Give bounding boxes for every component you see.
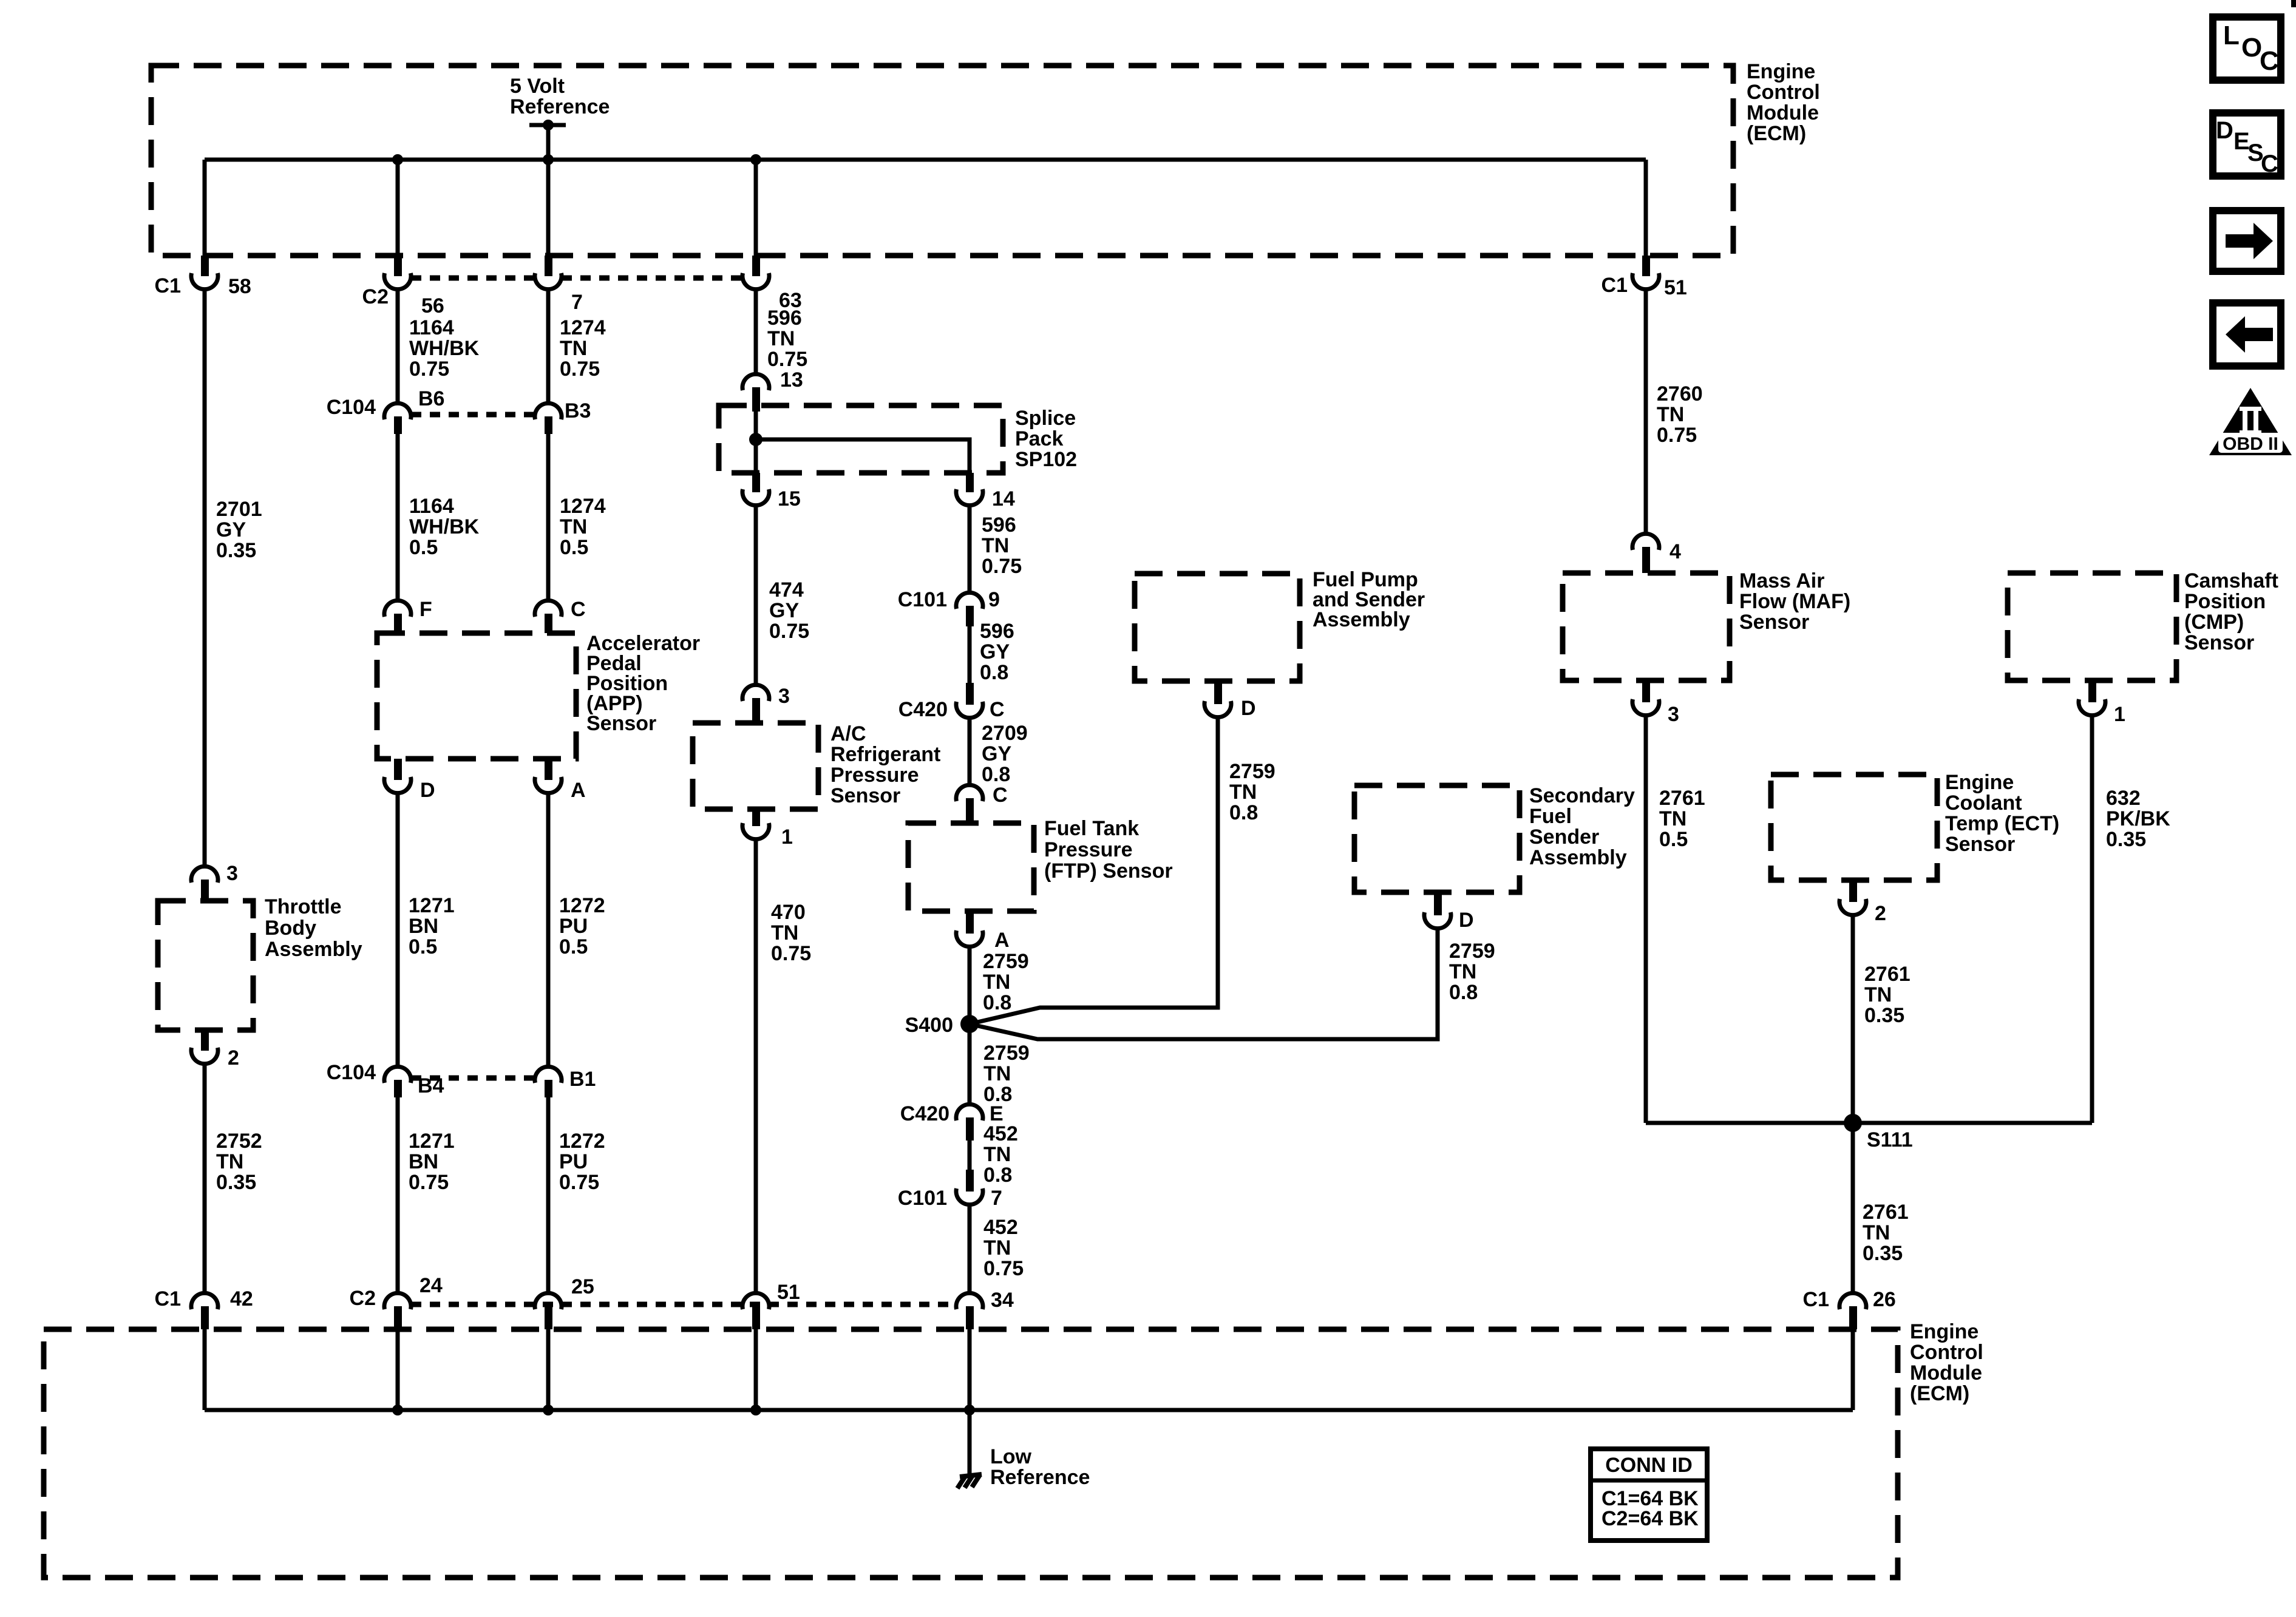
- 5 Volt Reference label: [510, 75, 610, 118]
- Low Reference label: [990, 1445, 1090, 1489]
- connector pin 7: [535, 256, 583, 314]
- svg-text:TN: TN: [560, 515, 587, 538]
- svg-text:470: 470: [771, 901, 806, 924]
- wire label 452 TN 0.75: [983, 1216, 1024, 1280]
- svg-text:1272: 1272: [559, 894, 605, 917]
- svg-text:B1: B1: [569, 1068, 596, 1091]
- connector CMP pin 1: [2079, 680, 2125, 726]
- svg-text:Engine: Engine: [1747, 60, 1815, 83]
- wire label 2759 TN 0.8 (pump): [1229, 760, 1275, 824]
- svg-text:TN: TN: [1657, 403, 1684, 426]
- svg-text:474: 474: [769, 578, 804, 602]
- svg-text:Camshaft: Camshaft: [2184, 569, 2278, 592]
- svg-text:L: L: [2223, 21, 2240, 50]
- wire 2760 C1-51 to MAF 4: [1644, 291, 1648, 532]
- svg-text:Low: Low: [990, 1445, 1032, 1468]
- node bus junction 63: [750, 154, 761, 165]
- svg-text:0.5: 0.5: [559, 935, 588, 958]
- svg-text:Reference: Reference: [510, 95, 610, 118]
- arrow right icon: [2213, 211, 2281, 271]
- Engine Coolant Temp Sensor dashed box: [1771, 775, 1937, 880]
- svg-text:WH/BK: WH/BK: [409, 515, 480, 538]
- svg-text:0.75: 0.75: [982, 555, 1022, 578]
- wire pin25 into box: [546, 1329, 551, 1410]
- svg-text:5 Volt: 5 Volt: [510, 75, 565, 98]
- wire label 2761 TN 0.5: [1659, 787, 1705, 851]
- svg-text:S400: S400: [905, 1014, 953, 1037]
- node bus2 junction C2-24: [392, 1405, 403, 1415]
- svg-text:42: 42: [230, 1287, 253, 1310]
- svg-text:0.75: 0.75: [409, 1171, 449, 1194]
- wire label 474 GY 0.75: [769, 578, 809, 643]
- svg-text:0.5: 0.5: [409, 536, 438, 559]
- svg-text:Refrigerant: Refrigerant: [830, 743, 940, 766]
- connector APP pin A: [535, 759, 586, 802]
- svg-text:0.5: 0.5: [1659, 828, 1688, 851]
- wire label 2761 TN 0.35 (b): [1863, 1201, 1909, 1265]
- 5 Volt Reference terminal symbol: [529, 120, 566, 131]
- svg-text:2701: 2701: [216, 498, 262, 521]
- dotted connector line C104 B6-B3: [411, 412, 535, 418]
- svg-text:C420: C420: [898, 698, 948, 721]
- connector C1-26 pin 26: [1803, 1288, 1896, 1329]
- svg-text:C: C: [990, 698, 1005, 721]
- svg-text:0.8: 0.8: [1229, 801, 1258, 824]
- connector C2-24 pin 24: [350, 1274, 443, 1329]
- svg-text:B6: B6: [418, 387, 444, 410]
- svg-text:4: 4: [1669, 540, 1681, 563]
- wire bus drop C2-56: [396, 160, 400, 256]
- svg-text:BN: BN: [409, 915, 438, 938]
- svg-text:3: 3: [778, 685, 790, 708]
- wire label 1164 WH/BK 0.75: [409, 316, 480, 381]
- svg-text:2761: 2761: [1659, 787, 1705, 810]
- node bus2 junction 25: [543, 1405, 554, 1415]
- svg-text:56: 56: [421, 294, 444, 317]
- wire label 596 TN 0.75: [767, 307, 807, 371]
- wire bus drop C1-51: [1644, 160, 1648, 256]
- svg-text:C104: C104: [327, 1061, 376, 1084]
- svg-text:596: 596: [982, 514, 1016, 537]
- svg-text:2759: 2759: [983, 950, 1029, 973]
- LOC icon: [2213, 17, 2281, 80]
- svg-text:Sensor: Sensor: [586, 712, 656, 735]
- svg-text:51: 51: [1664, 276, 1687, 299]
- svg-text:C1: C1: [155, 1287, 181, 1310]
- svg-text:Sensor: Sensor: [1945, 833, 2015, 856]
- dotted connector line C104 B4-B1: [411, 1076, 535, 1081]
- svg-text:2761: 2761: [1863, 1201, 1909, 1224]
- wire 2761 MAF 3 to S111: [1644, 717, 1648, 1123]
- svg-text:Reference: Reference: [990, 1466, 1090, 1489]
- svg-text:1274: 1274: [560, 495, 606, 518]
- svg-text:C101: C101: [898, 1187, 947, 1210]
- svg-text:C: C: [993, 784, 1008, 807]
- wire label 632 PK/BK 0.35: [2106, 787, 2170, 851]
- node bus junction C2: [392, 154, 403, 165]
- connector C104 pin B3: [535, 399, 591, 434]
- wire label 1274 TN 0.5: [560, 495, 606, 559]
- svg-text:C2=64 BK: C2=64 BK: [1601, 1507, 1699, 1530]
- svg-text:632: 632: [2106, 787, 2141, 810]
- svg-text:TN: TN: [216, 1150, 243, 1173]
- svg-text:2752: 2752: [216, 1130, 262, 1153]
- svg-text:PU: PU: [559, 1150, 588, 1173]
- svg-text:Position: Position: [2184, 590, 2266, 613]
- node splice S400: [905, 1014, 979, 1037]
- svg-text:Fuel: Fuel: [1529, 805, 1572, 828]
- node bus2 junction 51: [750, 1405, 761, 1415]
- svg-text:34: 34: [991, 1289, 1014, 1312]
- connector C420 pin C: [898, 683, 1005, 721]
- svg-text:TN: TN: [1864, 983, 1892, 1006]
- wire 5V reference bus: [205, 158, 1646, 162]
- connector FTP pin C: [956, 784, 1008, 823]
- svg-text:Sensor: Sensor: [2184, 631, 2254, 654]
- connector C101 pin 9: [898, 588, 1000, 626]
- svg-text:0.8: 0.8: [982, 763, 1010, 786]
- svg-text:Fuel Tank: Fuel Tank: [1044, 817, 1139, 840]
- svg-text:F: F: [419, 598, 432, 621]
- connector throttle pin 2: [191, 1030, 239, 1070]
- connector fuel pump pin D: [1204, 681, 1256, 720]
- svg-text:1272: 1272: [559, 1130, 605, 1153]
- wire 1274 C104-B3 to APP C: [546, 434, 551, 599]
- svg-text:(CMP): (CMP): [2184, 611, 2244, 634]
- svg-text:OBD II: OBD II: [2223, 434, 2278, 454]
- svg-text:TN: TN: [983, 971, 1010, 994]
- svg-text:2: 2: [228, 1046, 239, 1070]
- connector APP pin D: [384, 759, 435, 802]
- svg-text:0.75: 0.75: [1657, 424, 1697, 447]
- svg-text:A: A: [571, 779, 586, 802]
- connector pin 15: [742, 473, 801, 510]
- svg-text:Module: Module: [1747, 101, 1819, 124]
- wire 474 pin15 to AC 3: [754, 507, 758, 683]
- svg-text:3: 3: [226, 862, 238, 885]
- svg-text:0.75: 0.75: [769, 620, 809, 643]
- svg-text:0.75: 0.75: [560, 358, 600, 381]
- svg-text:Sensor: Sensor: [1739, 611, 1809, 634]
- connector AC pressure sensor pin 1: [742, 809, 793, 849]
- connector MAF pin 3: [1632, 680, 1679, 726]
- wire 452 C101-7 to pin 34: [968, 1207, 972, 1292]
- svg-text:2760: 2760: [1657, 382, 1703, 405]
- DESC icon: [2213, 113, 2281, 177]
- svg-text:(ECM): (ECM): [1747, 122, 1806, 145]
- svg-text:TN: TN: [767, 327, 795, 350]
- svg-text:B4: B4: [418, 1074, 444, 1097]
- svg-text:CONN ID: CONN ID: [1605, 1454, 1693, 1477]
- svg-text:0.35: 0.35: [1863, 1242, 1903, 1265]
- svg-text:7: 7: [991, 1187, 1002, 1210]
- svg-text:(FTP) Sensor: (FTP) Sensor: [1044, 859, 1173, 883]
- svg-text:GY: GY: [769, 599, 799, 622]
- wire label 2761 TN 0.35 (a): [1864, 963, 1911, 1027]
- wire low reference bus: [205, 1408, 1853, 1412]
- wire 596 pin63 to pin13: [754, 291, 758, 373]
- wire 2759 fuel pump D to S400: [970, 719, 1218, 1024]
- svg-text:2: 2: [1875, 902, 1886, 925]
- svg-text:0.8: 0.8: [983, 1164, 1012, 1187]
- connector C104 pin B6: [327, 387, 445, 434]
- ECM bottom dashed box: [44, 1329, 1898, 1578]
- connector pin 13: [742, 368, 803, 412]
- svg-text:C1: C1: [155, 274, 181, 297]
- connector C420 pin E: [900, 1102, 1004, 1141]
- wire 1272 C104-B1 to pin 25: [546, 1097, 551, 1292]
- svg-text:Body: Body: [265, 917, 316, 940]
- svg-text:1164: 1164: [409, 495, 454, 518]
- svg-text:Assembly: Assembly: [1313, 608, 1410, 631]
- wire bus drop pin63: [754, 160, 758, 256]
- svg-text:S111: S111: [1867, 1128, 1913, 1151]
- wire label 1274 TN 0.75: [560, 316, 606, 381]
- APP sensor label: [586, 632, 700, 735]
- wire splice internal vertical: [754, 412, 758, 473]
- svg-text:Control: Control: [1747, 81, 1820, 104]
- svg-text:0.5: 0.5: [560, 536, 588, 559]
- svg-text:WH/BK: WH/BK: [409, 337, 480, 360]
- svg-text:(ECM): (ECM): [1910, 1382, 1969, 1405]
- connector C1-58 pin 58: [155, 256, 251, 298]
- Mass Air Flow Sensor dashed box: [1563, 573, 1730, 680]
- ECM top dashed box: [151, 66, 1733, 256]
- svg-text:Temp (ECT): Temp (ECT): [1945, 812, 2059, 835]
- connector AC pressure sensor pin 3: [742, 685, 790, 723]
- wire 1271 APP D to C104-B4: [396, 795, 400, 1065]
- svg-text:452: 452: [983, 1216, 1018, 1239]
- wire 2759 secondary D to S400: [970, 931, 1438, 1039]
- Throttle Body Assembly dashed box: [158, 901, 253, 1030]
- OBD II icon: [2209, 388, 2292, 455]
- svg-text:Pressure: Pressure: [830, 764, 919, 787]
- wire label 1271 BN 0.5: [409, 894, 455, 958]
- svg-text:C1: C1: [1601, 274, 1628, 297]
- Fuel Pump and Sender Assembly dashed box: [1135, 574, 1300, 681]
- wire label 1272 PU 0.75: [559, 1130, 605, 1194]
- svg-text:25: 25: [571, 1275, 594, 1298]
- wire 1272 APP A to C104-B1: [546, 795, 551, 1065]
- dotted connector line C2-24 to 34: [411, 1302, 956, 1307]
- svg-text:Assembly: Assembly: [1529, 846, 1627, 869]
- Fuel Tank Pressure Sensor dashed box: [908, 823, 1034, 911]
- wire label 2759 TN 0.8 (a): [983, 950, 1029, 1014]
- wire label 596 TN 0.75 (b): [982, 514, 1022, 578]
- Fuel Tank Pressure Sensor label: [1044, 817, 1173, 883]
- connector pin 34: [956, 1289, 1014, 1329]
- svg-text:1: 1: [2114, 703, 2125, 726]
- svg-text:C: C: [2260, 46, 2279, 76]
- svg-text:Coolant: Coolant: [1945, 792, 2022, 815]
- svg-text:0.8: 0.8: [983, 991, 1011, 1014]
- wire 2752 TN throttle 2 to C1-42: [203, 1065, 207, 1292]
- svg-text:Mass Air: Mass Air: [1739, 569, 1824, 592]
- wire 2759 S400 to C420-E: [968, 1024, 972, 1103]
- svg-text:A: A: [994, 929, 1010, 952]
- connector MAF pin 4: [1632, 534, 1681, 573]
- svg-text:0.35: 0.35: [1864, 1004, 1904, 1027]
- wire bus drop pin7: [546, 160, 551, 256]
- connector C101 pin 7: [898, 1170, 1002, 1210]
- wire label 1271 BN 0.75: [409, 1130, 455, 1194]
- svg-text:TN: TN: [1863, 1221, 1890, 1244]
- svg-text:1271: 1271: [409, 894, 455, 917]
- Fuel Pump and Sender Assembly label: [1313, 568, 1425, 631]
- svg-text:C: C: [2261, 151, 2278, 177]
- svg-text:C420: C420: [900, 1102, 949, 1125]
- connector C1-51 pin 51: [1601, 256, 1687, 299]
- svg-text:596: 596: [767, 307, 802, 330]
- Camshaft Position Sensor label: [2184, 569, 2278, 654]
- svg-text:0.8: 0.8: [1449, 981, 1478, 1004]
- wire 1164 C104-B6 to APP F: [396, 434, 400, 599]
- wire 5V stem: [546, 125, 551, 160]
- svg-text:0.75: 0.75: [559, 1171, 599, 1194]
- connector APP pin C: [535, 598, 586, 633]
- svg-text:TN: TN: [771, 921, 798, 944]
- svg-text:TN: TN: [982, 534, 1009, 557]
- wire C2-24 into box: [396, 1329, 400, 1410]
- svg-text:Sensor: Sensor: [830, 784, 900, 807]
- connector throttle pin 3: [191, 862, 238, 901]
- svg-text:452: 452: [983, 1122, 1018, 1145]
- wire label 2709 GY 0.8: [982, 722, 1028, 786]
- connector C2-56 pin 56: [362, 256, 444, 317]
- wire label 2752 TN 0.35: [216, 1130, 262, 1194]
- svg-text:2761: 2761: [1864, 963, 1911, 986]
- svg-text:0.75: 0.75: [771, 942, 811, 965]
- connector pin 51 bottom: [742, 1281, 800, 1329]
- svg-text:596: 596: [980, 620, 1014, 643]
- wire 1271 C104-B4 to C2-24: [396, 1097, 400, 1292]
- svg-text:C2: C2: [350, 1287, 376, 1310]
- svg-text:Flow (MAF): Flow (MAF): [1739, 590, 1850, 613]
- Splice Pack label: [1015, 407, 1077, 471]
- svg-text:1274: 1274: [560, 316, 606, 339]
- wire 2761 ECT 2 to S111: [1851, 917, 1855, 1123]
- svg-text:13: 13: [780, 368, 803, 392]
- wire 596 GY C101-9 to C420-C: [968, 626, 972, 683]
- wire 2701 GY C1-58 to throttle 3: [203, 291, 207, 865]
- ECM bottom label: [1910, 1320, 1983, 1405]
- svg-text:58: 58: [228, 275, 251, 298]
- svg-text:2759: 2759: [1449, 940, 1495, 963]
- A/C Refrigerant Pressure Sensor label: [830, 722, 940, 807]
- svg-text:51: 51: [777, 1281, 800, 1304]
- svg-text:GY: GY: [216, 518, 246, 541]
- wire 1274 pin7 to C104-B3: [546, 291, 551, 402]
- ground low reference symbol: [957, 1474, 982, 1488]
- Engine Coolant Temp Sensor label: [1945, 771, 2059, 856]
- Throttle Body Assembly label: [265, 895, 362, 961]
- svg-text:GY: GY: [980, 640, 1010, 663]
- wire C1-26 into box: [1851, 1329, 1855, 1410]
- wire 470 AC 1 to pin 51: [754, 841, 758, 1292]
- Camshaft Position Sensor dashed box: [2008, 573, 2176, 680]
- connector C104 pin B4: [327, 1061, 444, 1097]
- svg-text:D: D: [1459, 909, 1474, 932]
- svg-text:Pressure: Pressure: [1044, 838, 1133, 861]
- svg-text:C1: C1: [1803, 1288, 1829, 1311]
- wire label 596 GY 0.8: [980, 620, 1014, 684]
- svg-text:2759: 2759: [983, 1042, 1030, 1065]
- svg-text:TN: TN: [983, 1143, 1011, 1166]
- svg-text:Throttle: Throttle: [265, 895, 342, 918]
- ECM top label: [1747, 60, 1820, 145]
- wire pin51 into box: [754, 1329, 758, 1410]
- svg-text:0.75: 0.75: [409, 358, 449, 381]
- svg-text:PU: PU: [559, 915, 588, 938]
- svg-text:3: 3: [1668, 703, 1679, 726]
- connector APP pin F: [384, 598, 432, 633]
- node bus junction 5V: [543, 154, 554, 165]
- connector secondary sender pin D: [1424, 892, 1474, 932]
- svg-text:C101: C101: [898, 588, 947, 611]
- svg-text:24: 24: [419, 1274, 443, 1297]
- wire splice internal branch: [756, 439, 970, 473]
- svg-text:Module: Module: [1910, 1361, 1982, 1385]
- page corner mark: [2291, 0, 2296, 7]
- svg-text:GY: GY: [982, 742, 1011, 765]
- svg-text:A/C: A/C: [830, 722, 866, 745]
- node bus2 junction 34: [964, 1405, 975, 1415]
- wire 596 pin14 to C101-9: [968, 507, 972, 591]
- connector pin 25: [535, 1275, 594, 1329]
- svg-text:C104: C104: [327, 396, 376, 419]
- connector pin 63: [742, 256, 802, 312]
- svg-text:0.35: 0.35: [2106, 828, 2146, 851]
- svg-text:0.75: 0.75: [983, 1257, 1024, 1280]
- svg-text:2759: 2759: [1229, 760, 1275, 783]
- svg-text:B3: B3: [565, 399, 591, 422]
- svg-text:Splice: Splice: [1015, 407, 1076, 430]
- wire 2759 FTP A to S400: [968, 949, 972, 1024]
- svg-text:BN: BN: [409, 1150, 438, 1173]
- wire 632 CMP 1 to S111: [2090, 717, 2094, 1123]
- svg-text:TN: TN: [1449, 960, 1476, 983]
- wire label 2759 TN 0.8 (secondary): [1449, 940, 1495, 1004]
- node splice S111: [1844, 1114, 1913, 1151]
- svg-text:D: D: [1241, 697, 1256, 720]
- svg-text:0.35: 0.35: [216, 539, 256, 562]
- wire label 2701 GY 0.35: [216, 498, 262, 562]
- Splice Pack dashed box: [719, 405, 1003, 473]
- dotted connector line C2-56 to 63: [411, 276, 535, 281]
- svg-text:7: 7: [571, 291, 583, 314]
- svg-text:SP102: SP102: [1015, 448, 1077, 471]
- svg-text:TN: TN: [1229, 781, 1257, 804]
- svg-text:0.35: 0.35: [216, 1171, 256, 1194]
- svg-text:Engine: Engine: [1945, 771, 2014, 794]
- svg-text:Sender: Sender: [1529, 825, 1599, 849]
- wire label 2759 TN 0.8 (b): [983, 1042, 1030, 1106]
- connector pin 14: [956, 473, 1015, 510]
- svg-text:1271: 1271: [409, 1130, 455, 1153]
- arrow left icon: [2213, 303, 2281, 366]
- wire label 1272 PU 0.5: [559, 894, 605, 958]
- svg-text:Pack: Pack: [1015, 427, 1063, 450]
- wire 2761 S111 to C1-26: [1851, 1123, 1855, 1292]
- wire label 452 TN 0.8: [983, 1122, 1018, 1187]
- connector C104 pin B1: [535, 1066, 596, 1097]
- wire 2709 C420-C to FTP C: [968, 720, 972, 784]
- svg-text:Assembly: Assembly: [265, 938, 362, 961]
- wire pin34 into box: [968, 1329, 972, 1410]
- svg-text:C2: C2: [362, 285, 389, 308]
- wire label 470 TN 0.75: [771, 901, 811, 965]
- svg-text:0.8: 0.8: [980, 661, 1008, 684]
